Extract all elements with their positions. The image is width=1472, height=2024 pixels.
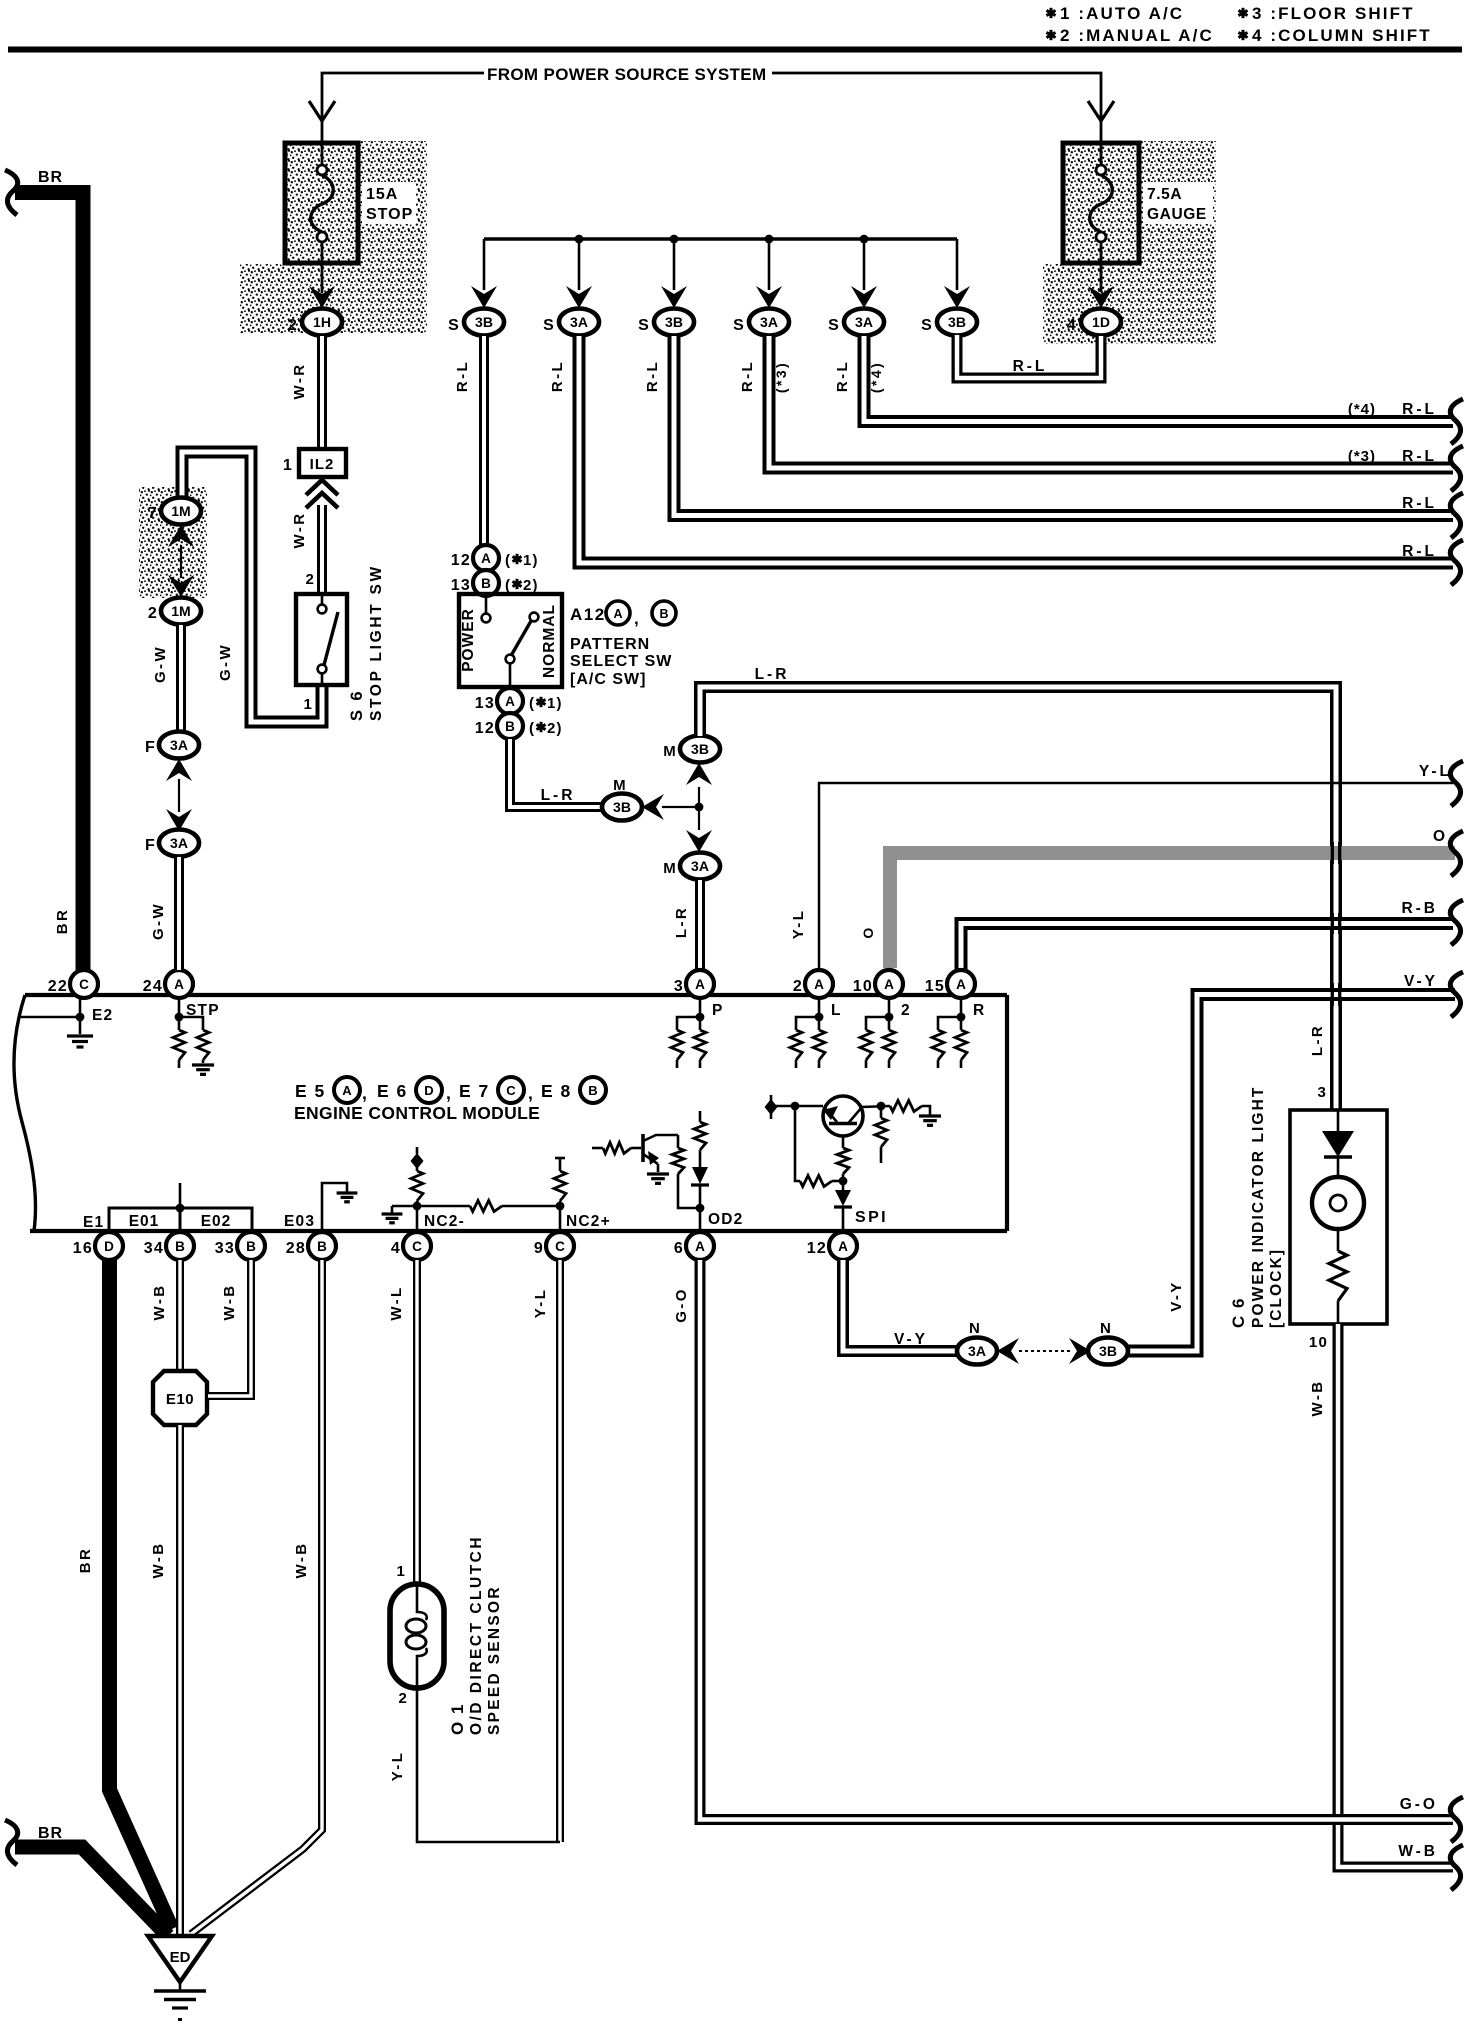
resistor in clock — [1337, 1229, 1340, 1251]
arrowhead into N(3B) — [1069, 1338, 1091, 1364]
link wire between F connectors — [178, 779, 180, 812]
svg-text:(: ( — [505, 552, 511, 569]
svg-text:W-L: W-L — [388, 1285, 405, 1320]
continuation brace Y-L — [1450, 761, 1463, 806]
continuation brace O — [1450, 831, 1463, 876]
resistor NC2- — [411, 1171, 423, 1201]
svg-text:R-L: R-L — [1402, 495, 1437, 512]
svg-text:,: , — [362, 1083, 368, 1103]
ground connector ED triangle — [148, 1936, 212, 1982]
wire L-R from M(3B) to power indicator light — [700, 687, 1336, 1110]
svg-text:3B: 3B — [948, 314, 966, 330]
svg-text:O/D DIRECT CLUTCH: O/D DIRECT CLUTCH — [468, 1535, 485, 1735]
internal node R with resistor pair — [960, 998, 963, 1030]
svg-text:G-O: G-O — [1400, 1796, 1438, 1813]
arrowhead into GAUGE fuse — [1088, 101, 1114, 121]
wire W-B from pin 34 to E10 — [176, 1260, 184, 1372]
svg-text:G-W: G-W — [152, 645, 169, 683]
wire R-B from ECM pin 15 to right edge — [961, 924, 1453, 971]
connector M (3A) lower — [680, 853, 720, 880]
ECM pin 6 (A) — [686, 1232, 714, 1260]
continuation brace V-Y — [1450, 972, 1463, 1017]
connector 1 (IL2) — [299, 449, 346, 477]
svg-text:A12: A12 — [570, 605, 606, 624]
svg-text:1H: 1H — [313, 314, 331, 330]
svg-text:,: , — [446, 1083, 452, 1103]
svg-text:IL2: IL2 — [310, 456, 335, 473]
thick BR wire from pin 16 to ED ground — [110, 1260, 173, 1929]
svg-text:E10: E10 — [166, 1391, 194, 1408]
ground at NC2- rail — [391, 1206, 394, 1213]
svg-text:(*3): (*3) — [1348, 448, 1376, 465]
internal diode SP1 — [835, 1190, 851, 1206]
internal boxes E01 E02 — [109, 1208, 180, 1231]
ECM pin 34 (B) — [166, 1232, 194, 1260]
ECM pin 4 (C) — [403, 1232, 431, 1260]
svg-text:PATTERN: PATTERN — [570, 636, 650, 653]
link wire up to M(3B) vertical — [698, 787, 700, 807]
svg-text:[A/C SW]: [A/C SW] — [570, 671, 646, 688]
thick BR wire from top left to ECM pin 22 — [15, 193, 83, 971]
svg-text:R-L: R-L — [644, 360, 661, 392]
svg-text:E 7: E 7 — [459, 1081, 490, 1101]
svg-text:A: A — [174, 977, 184, 992]
svg-text:10: 10 — [853, 978, 873, 995]
svg-text:3B: 3B — [1099, 1343, 1117, 1359]
svg-text:R-L: R-L — [1402, 448, 1437, 465]
wire fuse STOP to connector 1H — [321, 263, 324, 292]
resistor between NC2- and NC2+ — [470, 1201, 502, 1212]
arrowhead up into F(3A) upper — [166, 759, 192, 781]
svg-text:Y-L: Y-L — [1419, 763, 1452, 780]
drop wire and arrow to connector S (3B) at x=484 — [483, 239, 486, 290]
svg-text:B: B — [588, 1083, 597, 1098]
svg-text:G-W: G-W — [150, 902, 167, 940]
ground symbol at E2 — [67, 1034, 93, 1037]
continuation brace BR bottom left — [5, 1820, 18, 1865]
sensor coil — [417, 1584, 427, 1620]
svg-text:1: 1 — [303, 696, 313, 713]
drop wire and arrow to connector S (3A) at x=579 — [578, 239, 581, 290]
wire from power source to 15A STOP fuse — [322, 73, 484, 143]
svg-text:B: B — [659, 607, 668, 621]
wire W-B from E10 to ED ground — [176, 1425, 184, 1936]
svg-text:22: 22 — [48, 978, 68, 995]
svg-text:Y-L: Y-L — [532, 1288, 549, 1319]
connector pin 12 (B) (*2) below switch — [497, 713, 523, 739]
internal node P with resistor pair — [699, 998, 702, 1030]
wire O (halftone) from ECM pin 10 to right edge — [890, 853, 1455, 968]
svg-text:E 6: E 6 — [377, 1081, 408, 1101]
wire fuse GAUGE to connector 1D — [1100, 263, 1103, 292]
svg-text:4 :COLUMN SHIFT: 4 :COLUMN SHIFT — [1252, 26, 1432, 45]
arrowhead into 1D — [1088, 286, 1114, 308]
stop light switch S6 box — [296, 594, 347, 685]
svg-text:A: A — [613, 607, 622, 621]
svg-text:W-B: W-B — [150, 1542, 167, 1579]
svg-text:V-Y: V-Y — [1168, 1280, 1185, 1311]
internal node NC2+ with resistor — [559, 1157, 562, 1171]
arrowhead into N(3A) — [997, 1338, 1019, 1364]
svg-text:1: 1 — [283, 457, 293, 474]
svg-text:O 1: O 1 — [448, 1703, 467, 1735]
svg-text:M: M — [663, 743, 677, 760]
resistor at STP left — [173, 1030, 185, 1060]
svg-text:33: 33 — [215, 1240, 235, 1257]
fuse 15A STOP — [285, 143, 358, 263]
svg-text:2): 2) — [547, 720, 563, 737]
svg-text:Y-L: Y-L — [790, 909, 807, 940]
base resistor SP1 — [842, 1136, 845, 1148]
wire R-L from S(3A) x769 to right edge (*3) — [769, 336, 1453, 468]
link wire down to M(3A) — [698, 807, 700, 830]
svg-text:1): 1) — [523, 552, 539, 569]
continuation brace W-B — [1450, 1845, 1463, 1890]
internal transistor circuit SP1 - node diamond — [770, 1095, 773, 1119]
drop wire and arrow to connector S (3B) at x=674 — [673, 239, 676, 290]
continuation brace (*3) R-L — [1450, 446, 1463, 491]
wire from power source to 7.5A GAUGE fuse — [772, 73, 1101, 143]
svg-text:2: 2 — [305, 571, 315, 588]
svg-text:D: D — [104, 1239, 114, 1254]
svg-text:,: , — [634, 609, 640, 628]
stipple shade around connectors 1M — [139, 487, 207, 598]
internal node 2 with resistor pair — [888, 998, 891, 1030]
svg-text:W-B: W-B — [293, 1542, 310, 1579]
junction node of M link — [695, 803, 704, 812]
svg-text:P: P — [712, 1002, 724, 1019]
power indicator light C6 box — [1290, 1110, 1387, 1324]
arrowhead up into 1M upper — [168, 525, 194, 547]
wire V-Y from pin 12 to N(3A) — [843, 1260, 957, 1351]
base feed wire SP1 — [771, 1105, 823, 1108]
connector S (3B) at x=957 — [937, 309, 977, 336]
connector pin 12 (A) (*1) of pattern select switch — [473, 545, 499, 571]
ECM torn left edge — [14, 995, 35, 1231]
ECM pin 24 (A) — [165, 970, 193, 998]
ECM pin 3 (A) — [686, 970, 714, 998]
ECM pin 15 (A) — [947, 970, 975, 998]
drop wire and arrow to connector S (3A) at x=769 — [768, 239, 771, 290]
svg-text:3 :FLOOR SHIFT: 3 :FLOOR SHIFT — [1252, 4, 1415, 23]
svg-text:A: A — [838, 1239, 848, 1254]
switch contact NORMAL — [530, 613, 539, 622]
wire L-R vertical crossing patches — [1331, 842, 1334, 864]
connector S (3A) at x=579 — [559, 309, 599, 336]
svg-text:ENGINE CONTROL MODULE: ENGINE CONTROL MODULE — [294, 1103, 540, 1123]
svg-text:W-B: W-B — [1309, 1380, 1326, 1417]
stipple shade around fuse 15A STOP — [240, 141, 427, 333]
svg-text:A: A — [505, 694, 515, 709]
svg-text:E1: E1 — [83, 1214, 104, 1231]
speed sensor O1 body — [390, 1584, 444, 1688]
svg-text:R: R — [973, 1002, 985, 1019]
feedback loop resistor SP1 — [795, 1106, 800, 1181]
wire R-L from S(3A) x579 to right edge — [579, 336, 1453, 563]
connector S (3B) at x=484 — [464, 309, 504, 336]
svg-text:L: L — [831, 1002, 842, 1019]
svg-text:A: A — [884, 977, 894, 992]
svg-text:BR: BR — [38, 169, 63, 186]
link wire between 1M connectors — [180, 545, 182, 578]
wire W-R from IL2 to stop light switch — [317, 505, 327, 594]
ECM pin 12 (A) — [829, 1232, 857, 1260]
connector F (3A) upper — [159, 732, 199, 759]
svg-text:2: 2 — [398, 1690, 408, 1707]
svg-text:D: D — [424, 1083, 433, 1098]
switch contact POWER — [485, 596, 488, 613]
wire W-L from pin 4 to speed sensor — [413, 1260, 421, 1585]
svg-text:12: 12 — [475, 720, 495, 737]
svg-text:BR: BR — [38, 1825, 63, 1842]
connector N (3A) — [957, 1338, 997, 1365]
connector pin 13 (A) (*1) below switch — [497, 688, 523, 714]
svg-text:G-O: G-O — [673, 1287, 690, 1323]
wire G-W from F(3A) to ECM pin 24 — [174, 857, 184, 970]
svg-text:NORMAL: NORMAL — [541, 604, 558, 678]
svg-text:2: 2 — [148, 605, 158, 622]
wire R-L from S(3B) x957 to connector 1D — [957, 335, 1101, 378]
svg-text:2 :MANUAL A/C: 2 :MANUAL A/C — [1060, 26, 1214, 45]
ECM pin 10 (A) — [875, 970, 903, 998]
svg-text:W-B: W-B — [151, 1284, 168, 1321]
svg-text:GAUGE: GAUGE — [1147, 206, 1207, 223]
arrowhead down into 1M lower — [168, 575, 194, 597]
arrowhead up into M(3B) — [686, 763, 712, 785]
svg-text:STOP: STOP — [366, 206, 413, 223]
connector M (3B) upper — [680, 736, 720, 763]
svg-text:W-R: W-R — [291, 512, 308, 549]
svg-text:BR: BR — [77, 1547, 94, 1573]
legend *2 MANUAL A/C — [1046, 30, 1055, 40]
svg-text:E 5: E 5 — [295, 1081, 326, 1101]
svg-text:F: F — [145, 739, 156, 756]
svg-text:C: C — [79, 977, 89, 992]
ECM pin 2 (A) — [805, 970, 833, 998]
wire R-L from S(3A) x864 to right edge (*4) — [864, 336, 1453, 422]
transistor Q SP1 — [823, 1096, 863, 1136]
svg-text:NC2+: NC2+ — [566, 1213, 611, 1230]
svg-text:B: B — [317, 1239, 327, 1254]
svg-text:3A: 3A — [170, 835, 188, 851]
connector N (3B) — [1088, 1338, 1128, 1365]
svg-text:10: 10 — [1309, 1334, 1328, 1351]
connector 2 (1M) — [161, 598, 201, 625]
svg-text:S 6: S 6 — [348, 689, 366, 721]
diode in clock — [1337, 1110, 1340, 1131]
ECM box outline — [25, 993, 1007, 997]
wire W-B from clock pin 10 to right edge — [1338, 1324, 1453, 1867]
connector 4 (1D) — [1081, 309, 1121, 336]
arrowhead into M(3B) — [642, 794, 664, 820]
continuation brace G-O — [1450, 1797, 1463, 1842]
svg-text:L-R: L-R — [673, 906, 690, 938]
wire W-B from pin 33 to E10 — [208, 1260, 251, 1396]
svg-text:16: 16 — [73, 1240, 93, 1257]
svg-text:SELECT SW: SELECT SW — [570, 653, 672, 670]
svg-text:W-B: W-B — [1398, 1843, 1438, 1860]
svg-text:B: B — [481, 576, 491, 591]
connector S (3A) at x=864 — [844, 309, 884, 336]
wire W-B from pin 28 to ED ground — [191, 1260, 322, 1934]
svg-text:3B: 3B — [691, 741, 709, 757]
svg-text:[CLOCK]: [CLOCK] — [1268, 1248, 1285, 1328]
svg-text:M: M — [613, 777, 627, 794]
svg-text:3B: 3B — [475, 314, 493, 330]
wire Y-L from ECM pin 2 to right edge — [819, 783, 1453, 970]
svg-text:7: 7 — [148, 505, 158, 522]
legend *1 AUTO A/C — [1046, 8, 1055, 18]
svg-text:POWER INDICATOR LIGHT: POWER INDICATOR LIGHT — [1250, 1086, 1267, 1328]
svg-text:13: 13 — [475, 695, 495, 712]
svg-text:M: M — [663, 860, 677, 877]
svg-text:(: ( — [529, 720, 535, 737]
stipple shade around fuse 7.5A GAUGE — [1043, 141, 1216, 344]
svg-text:POWER: POWER — [460, 608, 477, 672]
svg-text:12: 12 — [807, 1240, 827, 1257]
ECM pin 22 (C) — [70, 970, 98, 998]
pattern select switch A12 box — [459, 594, 562, 687]
svg-text:S: S — [828, 317, 840, 334]
svg-text:N: N — [1100, 1320, 1112, 1337]
wire G-W hook from stop light switch to connector 1M — [182, 452, 322, 722]
internal node NC2- with diamond — [416, 1147, 419, 1154]
wire W-R from 1H to IL2 — [317, 336, 327, 449]
wire Y-L from pin 9 down — [556, 1260, 564, 1842]
svg-text:S: S — [733, 317, 745, 334]
svg-text:3A: 3A — [760, 314, 778, 330]
svg-text:24: 24 — [143, 978, 163, 995]
svg-text:A: A — [695, 1239, 705, 1254]
legend *4 COLUMN SHIFT — [1238, 30, 1247, 40]
wire V-Y clock feed from N(3B) to right edge — [1127, 995, 1455, 1352]
svg-text:3: 3 — [1317, 1084, 1327, 1101]
svg-text:E03: E03 — [284, 1213, 315, 1230]
svg-text:E2: E2 — [92, 1007, 113, 1024]
collector node and resistor to ground SP1 — [877, 1102, 886, 1111]
wire L-R from M(3A) to ECM pin 3 — [695, 880, 705, 970]
svg-text:N: N — [969, 1320, 981, 1337]
continuation brace (*4) R-L — [1450, 399, 1463, 444]
svg-text:R-L: R-L — [1402, 401, 1437, 418]
svg-text:R-L: R-L — [549, 360, 566, 392]
svg-text:OD2: OD2 — [708, 1211, 743, 1228]
svg-text:BR: BR — [54, 908, 71, 934]
svg-text:34: 34 — [144, 1240, 164, 1257]
wire R-L from S(3B) x674 to right edge — [674, 336, 1453, 516]
svg-text:3A: 3A — [855, 314, 873, 330]
svg-text:2: 2 — [793, 978, 803, 995]
wire L-R from pattern select to connector M(3B) — [510, 739, 602, 807]
ground symbol at STP — [192, 1063, 214, 1066]
internal diode chain OD2 — [699, 1111, 702, 1122]
svg-text:3A: 3A — [570, 314, 588, 330]
svg-text:(*4): (*4) — [1348, 401, 1376, 418]
collector resistor of OD2 transistor — [677, 1135, 680, 1148]
svg-text:3A: 3A — [968, 1343, 986, 1359]
ground at SP1 collector resistor — [919, 1114, 941, 1117]
svg-text:SPEED SENSOR: SPEED SENSOR — [486, 1585, 503, 1735]
svg-text:4: 4 — [1067, 317, 1077, 334]
svg-text:W-B: W-B — [221, 1284, 238, 1321]
svg-text:R-L: R-L — [454, 360, 471, 392]
svg-text:SPI: SPI — [855, 1209, 888, 1226]
top border rule — [8, 47, 1462, 53]
svg-text:B: B — [246, 1239, 256, 1254]
connector 7 (1M) — [161, 498, 201, 525]
svg-text:C: C — [506, 1083, 516, 1098]
connector F (3A) lower — [159, 830, 199, 857]
svg-text:L-R: L-R — [755, 666, 790, 683]
svg-text:A: A — [956, 977, 966, 992]
bus wire from S connectors — [484, 237, 957, 240]
svg-text:E02: E02 — [201, 1213, 232, 1230]
ECM pin 9 (C) — [546, 1232, 574, 1260]
svg-text:3A: 3A — [170, 737, 188, 753]
svg-text:3A: 3A — [691, 858, 709, 874]
svg-text:3B: 3B — [613, 799, 631, 815]
svg-text:A: A — [481, 551, 491, 566]
svg-text:1D: 1D — [1092, 314, 1110, 330]
connector 2 (1H) — [302, 309, 342, 336]
arrowhead down into F(3A) lower — [166, 809, 192, 831]
dashed link between N connectors — [1019, 1350, 1070, 1352]
ECM pin 33 (B) — [237, 1232, 265, 1260]
svg-text:S: S — [543, 317, 555, 334]
arrowhead down into M(3A) — [686, 830, 712, 852]
svg-text:R-L: R-L — [739, 360, 756, 392]
continuation brace R-L row3 — [1450, 493, 1463, 538]
svg-text:2: 2 — [901, 1002, 911, 1019]
svg-text:E 8: E 8 — [541, 1081, 572, 1101]
label 15A STOP — [362, 182, 416, 224]
svg-text:Y-L: Y-L — [389, 1751, 406, 1782]
svg-text:V-Y: V-Y — [894, 1331, 928, 1348]
wire Y-L from sensor pin 2 looping to pin 9 wire — [417, 1688, 560, 1842]
ECM pin 28 (B) — [308, 1232, 336, 1260]
wire G-W from 1M to F(3A) — [176, 625, 186, 732]
svg-text:L-R: L-R — [1309, 1024, 1326, 1056]
svg-text:S: S — [448, 317, 460, 334]
bulb in clock — [1312, 1177, 1364, 1229]
svg-text:O: O — [1433, 828, 1446, 845]
connector S (3B) at x=674 — [654, 309, 694, 336]
connector E10 octagon — [153, 1371, 207, 1425]
svg-text:C 6: C 6 — [1229, 1297, 1248, 1328]
svg-text:1M: 1M — [171, 603, 190, 619]
switch arm — [512, 621, 531, 654]
connector M (3B) horizontal pair left — [602, 794, 642, 821]
svg-text:E01: E01 — [129, 1213, 160, 1230]
internal rail NC2- to NC2+ — [392, 1205, 470, 1208]
svg-text:G-W: G-W — [217, 643, 234, 681]
svg-text:R-L: R-L — [1402, 543, 1437, 560]
svg-text:S: S — [921, 317, 933, 334]
internal node E2 — [20, 1016, 80, 1019]
svg-text:2: 2 — [288, 317, 298, 334]
internal node L with resistor pair — [818, 998, 821, 1030]
svg-text:(: ( — [529, 695, 535, 712]
svg-text:R-L: R-L — [1013, 358, 1048, 375]
continuation brace BR top left — [5, 170, 18, 215]
branch and resistor at STP right — [179, 1017, 203, 1030]
svg-text:3: 3 — [674, 978, 684, 995]
svg-text:W-R: W-R — [291, 363, 308, 400]
arrowhead into STOP fuse — [309, 101, 335, 121]
svg-text:12: 12 — [451, 552, 471, 569]
svg-text:7.5A: 7.5A — [1147, 186, 1182, 203]
svg-text:A: A — [342, 1083, 352, 1098]
